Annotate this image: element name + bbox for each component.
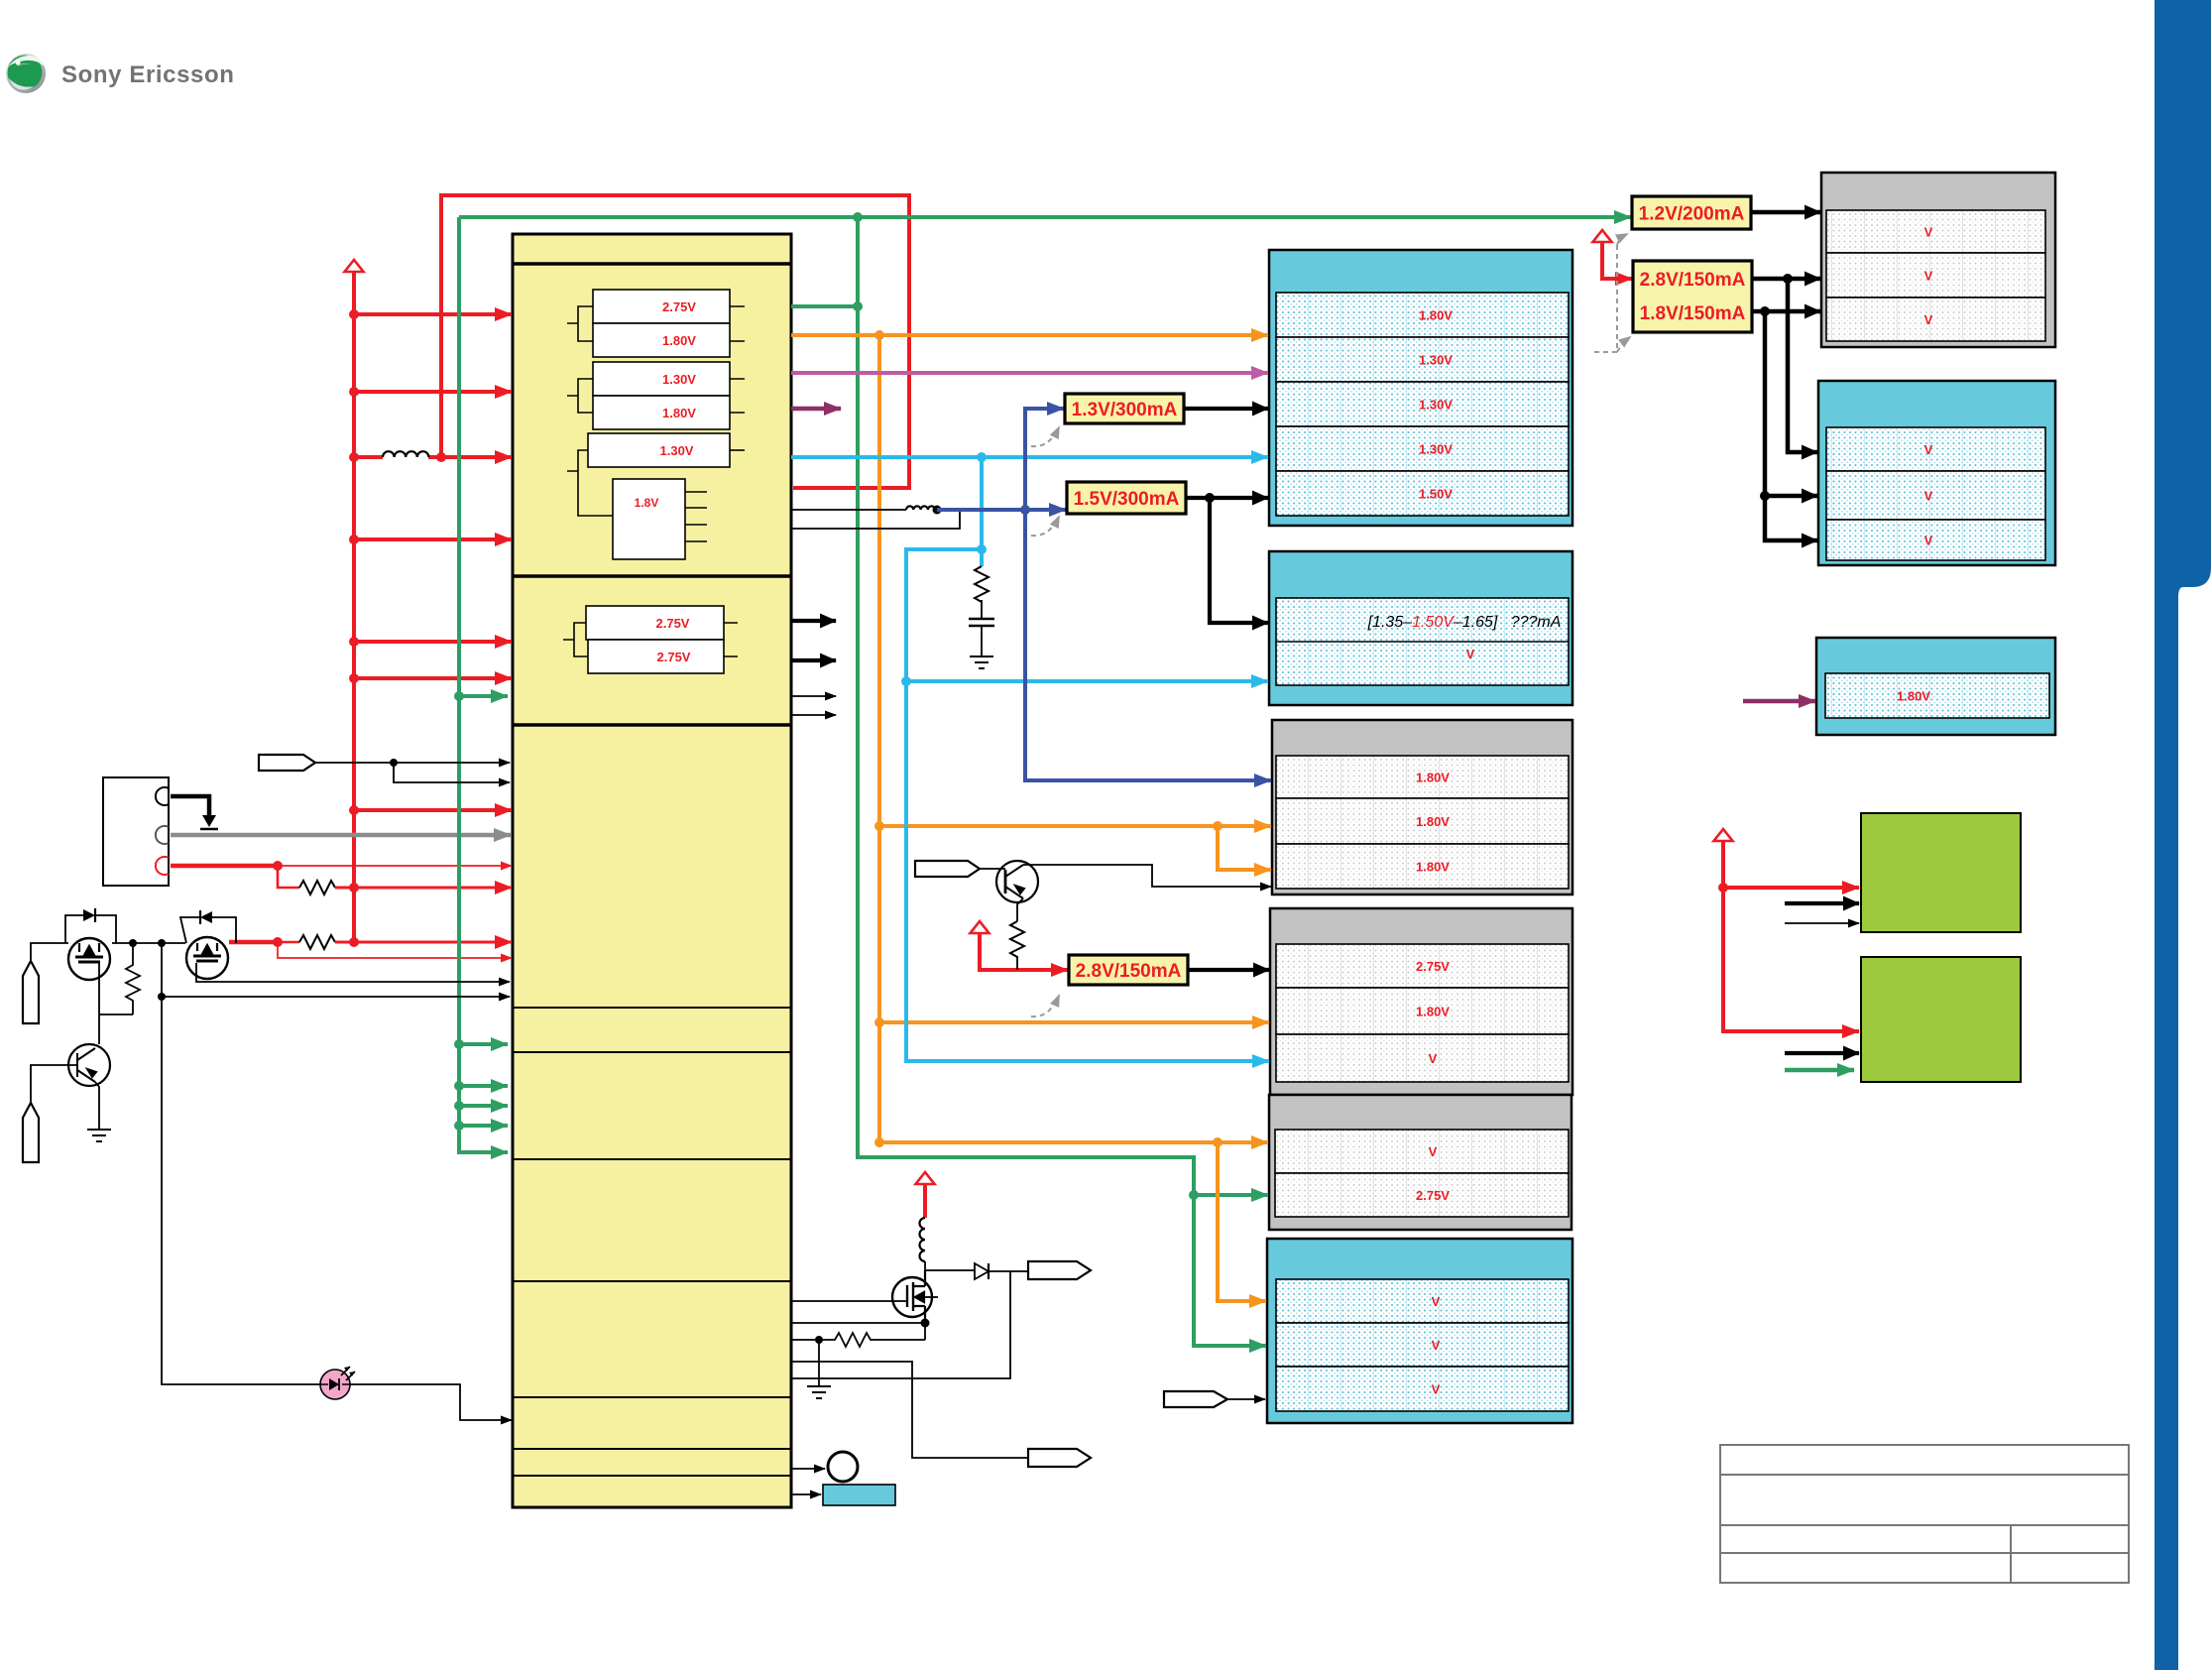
junction sense branch xyxy=(158,993,166,1001)
PMIC section dividers xyxy=(513,264,791,1476)
boost inductor L3 xyxy=(920,1218,926,1261)
junction VBAT pin6 xyxy=(349,673,359,683)
wire 1.5V label to M1 row5 xyxy=(1186,496,1268,500)
transistor Q4 (NPN charger) xyxy=(68,1044,110,1086)
pin flag PMIC top xyxy=(259,755,315,771)
svg-text:2.75V: 2.75V xyxy=(656,616,690,631)
svg-text:2.75V: 2.75V xyxy=(1416,959,1450,974)
ground symbol C1 xyxy=(970,656,993,668)
dashed ctrl to 2.8V label xyxy=(1031,996,1059,1016)
LDO output 1.80V (A2) xyxy=(593,323,730,357)
ground arrow battery xyxy=(202,815,216,827)
connector contact 3 xyxy=(156,857,169,875)
wire switch node right xyxy=(925,1269,975,1271)
LDO output 1.30V (A5) xyxy=(588,433,730,467)
pin flag Q4 base xyxy=(23,1103,39,1162)
dashed ctrl to 1.5V label xyxy=(1031,517,1059,536)
ferrite bead L1 xyxy=(383,451,428,457)
dashed ctrl to 2.8V label xyxy=(1617,337,1630,352)
wire Q3 collector to M3 row3 xyxy=(1023,865,1271,887)
wire R6 node to ground xyxy=(818,1340,820,1386)
svg-text:[1.35–1.50V–1.65] ???mA: [1.35–1.50V–1.65] ???mA xyxy=(1367,614,1562,631)
wire C1 to ground xyxy=(981,626,983,656)
wire Q1 source left xyxy=(31,943,68,961)
junction green corner xyxy=(458,216,460,218)
A6 right pins xyxy=(685,492,707,541)
wire thick stub out B1 xyxy=(791,619,836,623)
power symbol 2.8V LDO mid xyxy=(971,921,990,933)
junction charger node xyxy=(273,937,283,947)
wire green arrow PMIC a xyxy=(459,694,508,698)
rail label 2.8V/150mA xyxy=(1069,955,1188,985)
wire battery sense (gray) to PMIC xyxy=(171,833,511,838)
svg-text:V: V xyxy=(1466,647,1475,661)
junction VBAT loop xyxy=(436,452,446,462)
wire cyan to M2 row2 xyxy=(906,679,1268,683)
wire orange to M4 row2 xyxy=(879,1020,1269,1024)
power symbol 2.8V/1.8V LDO xyxy=(1593,230,1612,242)
wire orange M6 row1 branch xyxy=(1218,1142,1266,1301)
rail label 1.2V/200mA xyxy=(1632,196,1751,229)
junction VBAT pin2 xyxy=(349,387,359,397)
wire Q4 base xyxy=(31,1065,77,1103)
bracket for A1/A2 xyxy=(567,306,593,341)
wire VBAT top loop xyxy=(441,195,909,488)
wire R3 to C1 xyxy=(981,600,983,619)
svg-text:1.80V: 1.80V xyxy=(662,333,696,348)
svg-text:V: V xyxy=(1924,312,1933,327)
resistor R4 (emitter) xyxy=(1010,921,1024,957)
junction 2.8V branch xyxy=(1783,274,1793,284)
wire Q4 emitter to ground xyxy=(95,1082,99,1130)
svg-text:1.80V: 1.80V xyxy=(1416,860,1450,875)
LDO output 2.75V (A1) xyxy=(593,290,730,323)
svg-text:1.80V: 1.80V xyxy=(1419,308,1453,323)
svg-text:1.30V: 1.30V xyxy=(662,372,696,387)
wire L3 to switch node xyxy=(924,1261,926,1270)
backlight module (cyan) xyxy=(823,1485,895,1505)
rail label 1.5V/300mA xyxy=(1067,482,1186,514)
wire Q2 gate to PMIC xyxy=(196,963,510,982)
wire PMIC SW2 feedback xyxy=(791,510,960,529)
junction orange M3 branch xyxy=(1213,821,1222,831)
junction green top join xyxy=(853,212,863,222)
transistor Q3 (NPN) xyxy=(996,861,1038,902)
body diode D1 loop xyxy=(65,915,116,943)
svg-text:2.75V: 2.75V xyxy=(662,299,696,314)
wire dark magenta stub xyxy=(791,407,841,412)
green block G2 xyxy=(1861,957,2021,1082)
resistor R6 (sense) xyxy=(819,1333,925,1347)
wire PMIC to backlight xyxy=(791,1493,821,1495)
A1/A2 right pins xyxy=(730,306,745,341)
wire cyan vertical 1 xyxy=(980,457,984,549)
dashed ctrl to 1.3V label xyxy=(1031,427,1059,446)
wire thin stub out b xyxy=(791,714,836,716)
pin flag NPN base xyxy=(915,861,980,877)
svg-text:V: V xyxy=(1432,1294,1441,1309)
svg-text:1.8V/150mA: 1.8V/150mA xyxy=(1640,303,1746,324)
wire cyan jog left xyxy=(906,549,982,681)
svg-text:V: V xyxy=(1432,1338,1441,1353)
block M6 (cyan, V rails) xyxy=(1267,1239,1572,1423)
wire charger node to R2 xyxy=(278,941,299,944)
camera block M4 (gray, 2.75/1.8V rails) xyxy=(1270,908,1572,1095)
rail label 2.8V+1.8V/150mA xyxy=(1633,261,1752,332)
junction BVOLT split xyxy=(273,861,283,871)
wire PMIC to Q5 gate xyxy=(791,1300,907,1302)
junction VBAT bead xyxy=(349,452,359,462)
wire VBAT bus vertical xyxy=(352,272,356,942)
Sony Ericsson logo xyxy=(6,54,46,93)
power symbol VBAT left bus xyxy=(345,260,364,272)
wire PMIC aux out to flag xyxy=(791,1362,1028,1458)
junction navy split xyxy=(1020,505,1030,515)
wire green arrow PMIC c xyxy=(459,1084,508,1088)
title block table xyxy=(1720,1445,2129,1583)
regulator 1.8V (A6) xyxy=(613,479,685,559)
svg-text:V: V xyxy=(1924,534,1933,548)
svg-text:1.30V: 1.30V xyxy=(660,443,694,458)
wire battery positive stub xyxy=(171,796,209,815)
diode D4 (boost) xyxy=(975,1263,989,1279)
svg-text:V: V xyxy=(1924,489,1933,504)
A3/A4 right pins xyxy=(730,379,745,413)
right block R3 (cyan, 1.80V rail) xyxy=(1816,638,2055,735)
svg-text:V: V xyxy=(1924,225,1933,240)
junction red G branch xyxy=(1718,883,1728,893)
bracket for A5/A6 xyxy=(567,450,613,516)
wire charger sense thin xyxy=(278,942,512,958)
wire green 1V2 feed top xyxy=(459,215,1631,219)
junction 1.8V branch2 xyxy=(1760,491,1770,501)
vibrator motor M xyxy=(828,1452,858,1482)
wire thick stub out B2 xyxy=(791,658,836,662)
svg-text:2.8V/150mA: 2.8V/150mA xyxy=(1640,270,1746,291)
memory block M1 (cyan, 1.8/1.3/1.3/1.3/1.5V rails) xyxy=(1269,250,1572,526)
junction L2 output node xyxy=(933,506,942,515)
junction bus R1 join xyxy=(349,883,359,893)
junction Q5 source node xyxy=(921,1319,930,1328)
svg-text:1.30V: 1.30V xyxy=(1419,442,1453,457)
transistor Q5 (boost NMOS) xyxy=(892,1270,938,1323)
right block R2 (cyan, V rails) xyxy=(1818,381,2055,565)
wire D4 to flag xyxy=(989,1270,1028,1272)
wire 1.2V label to R1 row1 xyxy=(1751,210,1820,215)
wire BVOLT thin to PMIC xyxy=(278,865,512,867)
ground symbol R6 xyxy=(807,1386,831,1398)
wire 2.8V label to M4 row1 xyxy=(1188,968,1269,972)
wire flag to PMIC pins xyxy=(315,762,510,764)
wire thin stub out a xyxy=(791,695,836,697)
svg-text:1.30V: 1.30V xyxy=(1419,353,1453,368)
wire green left bus xyxy=(459,217,508,1152)
junction cyan bus top xyxy=(977,452,987,462)
wire Q3 emitter to R4 xyxy=(1017,898,1023,921)
wire PMIC SW1 to L2 xyxy=(791,509,906,511)
junction orange bus top xyxy=(874,330,884,340)
wire Q5 source down xyxy=(924,1318,926,1323)
wire battery thermistor thick xyxy=(171,864,278,869)
junction green pin b xyxy=(454,1039,464,1049)
wire PMIC feedback to switch xyxy=(791,1271,1010,1378)
LDO output 1.30V (A3) xyxy=(593,362,730,396)
svg-text:1.80V: 1.80V xyxy=(1416,814,1450,829)
pin flag boost output xyxy=(1028,1261,1091,1279)
wire VBAT to PMIC pin5 xyxy=(354,640,512,644)
buck inductor L2 xyxy=(906,506,935,510)
wire black stub G1 a xyxy=(1785,901,1859,905)
wire 2.8V out to R1 row2 xyxy=(1752,277,1820,282)
svg-text:1.80V: 1.80V xyxy=(662,406,696,420)
svg-text:Sony Ericsson: Sony Ericsson xyxy=(61,61,235,88)
junction green pin d xyxy=(454,1101,464,1111)
wire flag to Q3 base xyxy=(980,868,1005,870)
wire cyan RC stub xyxy=(980,549,984,566)
wire green arrow PMIC b xyxy=(459,1042,508,1046)
bracket for A3/A4 xyxy=(567,379,593,413)
resistor R1 (BVOLT) xyxy=(299,881,335,895)
connector contact 1 xyxy=(156,787,169,805)
wire flag to M6 row3 xyxy=(1227,1398,1265,1400)
junction flag pin split xyxy=(390,759,398,767)
junction VBAT pin5 xyxy=(349,637,359,647)
wire navy arrow to 1.5V label xyxy=(1025,508,1066,512)
wire green mid bus xyxy=(858,217,1266,1346)
wire Q1-Q2 link xyxy=(112,942,185,944)
wire green PMIC output xyxy=(791,304,858,308)
ground symbol Q4 xyxy=(87,1130,111,1141)
wire sense long to LED xyxy=(162,997,320,1384)
wire charger FET drain xyxy=(229,940,278,945)
wire red to G1 xyxy=(1723,841,1859,888)
top-right block R1 (gray, V rails) xyxy=(1821,173,2055,347)
junction link sense xyxy=(158,939,166,947)
wire R4 to 2.8V rail xyxy=(1016,956,1018,970)
junction link R5 xyxy=(129,939,137,947)
wire orange M3 row3 branch xyxy=(1218,826,1271,870)
wire green arrow PMIC d xyxy=(459,1104,508,1108)
LDO output 2.75V (B2) xyxy=(588,640,724,673)
block M5 (gray, V/2.75V rails) xyxy=(1269,1095,1572,1230)
svg-text:V: V xyxy=(1924,442,1933,457)
wire red to 2.8V mid label xyxy=(980,933,1068,970)
wire VBAT to PMIC pin4 xyxy=(354,537,512,541)
resistor R3 (snubber) xyxy=(975,566,989,602)
wire 1.8V out to R1 row3 xyxy=(1752,309,1820,314)
svg-text:1.8V: 1.8V xyxy=(635,496,659,510)
pin flag aux output xyxy=(1028,1449,1091,1467)
blue side bar xyxy=(2154,0,2211,1670)
battery connector J1 xyxy=(103,777,169,886)
junction orange M4 join xyxy=(874,1017,884,1027)
wire 1.5V to M2 row1 xyxy=(1210,498,1268,623)
junction cyan RC join xyxy=(977,544,987,554)
LED D3 (pink indicator) xyxy=(320,1367,355,1399)
rail label 1.3V/300mA xyxy=(1065,394,1184,423)
wire navy L2 to 1.5V node xyxy=(937,508,1025,512)
svg-text:1.30V: 1.30V xyxy=(1419,398,1453,413)
diode D2 xyxy=(200,911,212,923)
body diode D2 loop xyxy=(180,917,236,943)
A5 right pin xyxy=(730,449,745,451)
wire red to boost L3 xyxy=(923,1184,927,1218)
transistor Q1 (PMOS) xyxy=(68,938,110,980)
junction bus R2 join xyxy=(349,937,359,947)
wire R1 to VBAT bus pin xyxy=(335,887,512,890)
svg-text:V: V xyxy=(1432,1382,1441,1397)
wire 1.8V branch to R2 row3 xyxy=(1765,496,1817,540)
connector contact 2 xyxy=(156,826,169,844)
wire green stub to G2 xyxy=(1785,1068,1854,1073)
svg-text:1.3V/300mA: 1.3V/300mA xyxy=(1072,400,1178,420)
wire navy to 1.3V label xyxy=(1025,409,1064,510)
junction green M5 join xyxy=(1189,1190,1199,1200)
svg-text:V: V xyxy=(1924,269,1933,284)
junction 1.8V branch xyxy=(1760,306,1770,316)
svg-text:1.80V: 1.80V xyxy=(1897,689,1930,704)
wire VBAT via bead to PMIC pin3 xyxy=(428,455,512,459)
memory block M2 (cyan, 1.35-1.50V rail) xyxy=(1269,551,1572,705)
wire flag pin branch xyxy=(394,763,510,782)
memory block M3 (gray, 1.8V rails) xyxy=(1272,720,1572,895)
wire black stub G1 b xyxy=(1785,922,1859,924)
wire purple PMIC to M1 row2 xyxy=(791,371,1268,375)
wire BVOLT branch down xyxy=(278,866,299,888)
svg-text:1.80V: 1.80V xyxy=(1416,771,1450,785)
wire 1.8V branch to R2 row2 xyxy=(1765,311,1817,496)
LDO output 2.75V (B1) xyxy=(586,606,724,640)
wire PMIC to vibrator xyxy=(791,1468,825,1470)
junction green out join xyxy=(853,301,863,311)
junction green pin a xyxy=(454,691,464,701)
wire dark magenta to R3 xyxy=(1743,699,1815,704)
wire orange PMIC to M1 xyxy=(791,333,1268,337)
bracket for B1/B2 xyxy=(563,623,588,656)
B1/B2 right pins xyxy=(724,623,738,656)
wire R2 to PMIC xyxy=(335,941,512,944)
svg-text:V: V xyxy=(1429,1051,1438,1066)
dashed ctrl vertical xyxy=(1594,245,1617,352)
wire VBAT to PMIC pin6 xyxy=(354,676,512,680)
power symbol 2.75V cam supply xyxy=(1714,829,1733,841)
power management IC block xyxy=(513,234,791,1507)
wire orange to M5 row1 xyxy=(879,1140,1268,1144)
dashed ctrl to 1.2V label xyxy=(1617,234,1627,245)
LDO output 1.80V (A4) xyxy=(593,396,730,429)
svg-text:1.80V: 1.80V xyxy=(1416,1005,1450,1019)
wire PMIC to R6 xyxy=(791,1339,819,1341)
wire VBAT to PMIC pin7 xyxy=(354,808,512,812)
junction green pin e xyxy=(454,1121,464,1131)
svg-text:1.5V/300mA: 1.5V/300mA xyxy=(1074,489,1180,510)
junction VBAT pin7 xyxy=(349,805,359,815)
pin flag keypad xyxy=(1164,1391,1227,1407)
svg-text:V: V xyxy=(1429,1144,1438,1159)
power symbol boost supply xyxy=(916,1172,935,1184)
wire VBAT to PMIC pin2 xyxy=(354,390,512,394)
junction VBAT pin1 xyxy=(349,309,359,319)
wire 1.3V label to M1 row3 xyxy=(1184,407,1268,411)
green block G1 xyxy=(1861,813,2021,932)
junction green pin c xyxy=(454,1081,464,1091)
wire source to R6 node xyxy=(924,1323,926,1340)
wire cyan PMIC to M1 row4 xyxy=(791,455,1268,459)
wire orange to M3 row2 xyxy=(879,824,1271,828)
wire cyan to M4 row3 xyxy=(906,681,1269,1061)
wire red to G2 xyxy=(1723,888,1859,1031)
svg-text:1.2V/200mA: 1.2V/200mA xyxy=(1639,204,1745,225)
wire orange bus vertical xyxy=(877,335,881,1142)
wire Q1 drain to Q4 collector xyxy=(99,963,133,1044)
svg-text:2.75V: 2.75V xyxy=(657,650,691,664)
resistor R2 (charge path) xyxy=(299,935,335,949)
junction VBAT pin4 xyxy=(349,535,359,544)
junction cyan M2 join xyxy=(901,676,911,686)
wire sense line to PMIC xyxy=(162,943,510,997)
wire green to M5 xyxy=(1194,1193,1268,1197)
wire VBAT to PMIC pin1 xyxy=(354,312,512,316)
junction R6 gnd node xyxy=(815,1336,823,1344)
transistor Q2 (PMOS) xyxy=(186,937,228,979)
junction orange M3 join xyxy=(874,821,884,831)
wire black stub G2 xyxy=(1785,1051,1859,1055)
junction orange M6 branch xyxy=(1213,1137,1222,1147)
svg-text:1.50V: 1.50V xyxy=(1419,487,1453,502)
wire VBAT bead tail xyxy=(354,455,383,459)
wire LED to PMIC sense xyxy=(350,1384,512,1420)
wire red to 2.8V/1.8V label xyxy=(1602,242,1632,279)
junction 1.5V branch xyxy=(1205,493,1215,503)
capacitor C1 xyxy=(969,619,994,626)
wire PMIC to Q5 source xyxy=(791,1322,925,1324)
diode D1 xyxy=(83,909,95,921)
junction orange M5 join xyxy=(874,1137,884,1147)
wire 2.8V branch to R2 row1 xyxy=(1788,279,1817,452)
svg-text:2.75V: 2.75V xyxy=(1416,1188,1450,1203)
resistor R5 (gate pulldown) xyxy=(126,943,140,1005)
wire navy to M3 row1 xyxy=(1025,510,1271,780)
wire green arrow PMIC e xyxy=(459,1124,508,1128)
svg-text:2.8V/150mA: 2.8V/150mA xyxy=(1076,961,1182,982)
pin flag Q1 source xyxy=(23,961,39,1023)
